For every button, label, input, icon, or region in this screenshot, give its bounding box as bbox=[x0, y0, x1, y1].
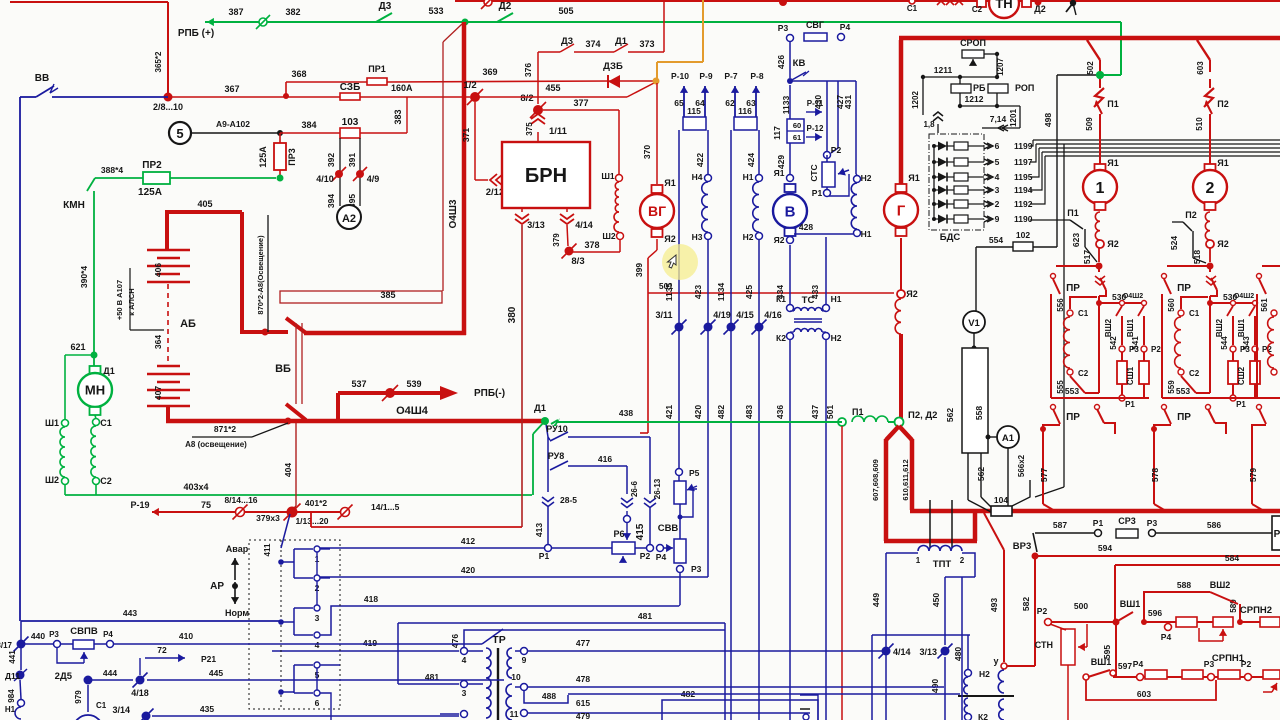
svg-text:ВШ1: ВШ1 bbox=[1091, 657, 1112, 667]
svg-text:С1: С1 bbox=[1189, 309, 1200, 318]
svg-text:379: 379 bbox=[552, 233, 561, 247]
svg-text:61: 61 bbox=[793, 133, 801, 142]
svg-text:Я1: Я1 bbox=[1217, 158, 1228, 168]
svg-text:870*2-А8(Освещение): 870*2-А8(Освещение) bbox=[256, 235, 265, 315]
svg-text:26-13: 26-13 bbox=[653, 478, 662, 499]
svg-text:160А: 160А bbox=[391, 83, 413, 93]
svg-text:440: 440 bbox=[31, 631, 45, 641]
svg-text:1190: 1190 bbox=[1014, 214, 1033, 224]
svg-text:П2, Д2: П2, Д2 bbox=[908, 410, 937, 421]
svg-text:Р2: Р2 bbox=[1151, 345, 1161, 354]
svg-text:369: 369 bbox=[482, 67, 497, 77]
svg-text:СТС: СТС bbox=[809, 164, 819, 181]
svg-text:8/14...16: 8/14...16 bbox=[224, 495, 257, 505]
svg-text:435: 435 bbox=[200, 704, 214, 714]
svg-text:116: 116 bbox=[738, 106, 752, 116]
svg-text:449: 449 bbox=[871, 593, 881, 607]
svg-text:410: 410 bbox=[179, 631, 193, 641]
svg-text:Г: Г bbox=[897, 202, 906, 219]
svg-text:РУ10: РУ10 bbox=[546, 424, 568, 434]
svg-text:Р5: Р5 bbox=[689, 468, 700, 478]
svg-text:ПР3: ПР3 bbox=[287, 148, 297, 165]
svg-text:607,608,609: 607,608,609 bbox=[871, 459, 880, 501]
svg-text:8/3: 8/3 bbox=[571, 256, 584, 267]
svg-text:555: 555 bbox=[1056, 380, 1065, 394]
svg-text:586: 586 bbox=[1207, 520, 1221, 530]
svg-text:370: 370 bbox=[642, 145, 652, 159]
svg-text:26-6: 26-6 bbox=[630, 480, 639, 497]
svg-text:542: 542 bbox=[1109, 336, 1118, 350]
svg-text:117: 117 bbox=[772, 126, 782, 140]
svg-text:603: 603 bbox=[1196, 61, 1205, 75]
svg-text:482: 482 bbox=[716, 405, 726, 419]
svg-text:Ш1: Ш1 bbox=[601, 171, 615, 181]
svg-text:П2: П2 bbox=[1185, 210, 1196, 220]
svg-text:Ш2: Ш2 bbox=[45, 475, 59, 485]
svg-text:1135: 1135 bbox=[664, 283, 674, 302]
svg-text:ВШ2: ВШ2 bbox=[1210, 580, 1231, 590]
svg-text:Я1: Я1 bbox=[908, 173, 919, 183]
svg-text:Р2: Р2 bbox=[640, 551, 651, 561]
svg-text:8/17: 8/17 bbox=[0, 641, 13, 650]
svg-text:554: 554 bbox=[989, 235, 1003, 245]
svg-text:Р4: Р4 bbox=[840, 22, 851, 32]
svg-text:1211: 1211 bbox=[934, 65, 953, 75]
svg-text:416: 416 bbox=[598, 454, 612, 464]
svg-text:560: 560 bbox=[1167, 298, 1176, 312]
svg-text:Р: Р bbox=[1274, 529, 1280, 540]
svg-text:579: 579 bbox=[1248, 468, 1258, 482]
svg-text:3/13: 3/13 bbox=[527, 220, 545, 230]
svg-text:438: 438 bbox=[619, 408, 633, 418]
svg-text:406: 406 bbox=[153, 263, 163, 277]
svg-text:О4Ш2: О4Ш2 bbox=[1234, 293, 1254, 300]
svg-text:Р21: Р21 bbox=[201, 654, 216, 664]
svg-text:578: 578 bbox=[1150, 468, 1160, 482]
svg-text:365*2: 365*2 bbox=[154, 51, 163, 72]
svg-text:Р1: Р1 bbox=[1236, 400, 1246, 409]
svg-text:Н2: Н2 bbox=[979, 669, 990, 679]
svg-text:556: 556 bbox=[1056, 298, 1065, 312]
svg-text:4: 4 bbox=[462, 655, 467, 665]
svg-text:4/9: 4/9 bbox=[367, 174, 380, 184]
svg-text:Р4: Р4 bbox=[1161, 632, 1172, 642]
svg-text:О4Ш4: О4Ш4 bbox=[396, 405, 429, 417]
svg-text:С1: С1 bbox=[96, 701, 107, 710]
svg-text:Р4: Р4 bbox=[656, 552, 667, 562]
svg-text:9: 9 bbox=[995, 214, 1000, 224]
svg-text:597: 597 bbox=[1118, 661, 1132, 671]
svg-text:621: 621 bbox=[70, 342, 85, 352]
svg-text:374: 374 bbox=[585, 39, 600, 49]
svg-text:С2: С2 bbox=[1078, 369, 1089, 378]
svg-text:537: 537 bbox=[351, 379, 366, 389]
svg-text:ПР: ПР bbox=[1177, 283, 1191, 294]
svg-text:543: 543 bbox=[1242, 336, 1251, 350]
svg-text:455: 455 bbox=[545, 83, 560, 93]
svg-text:4/14: 4/14 bbox=[893, 647, 911, 657]
svg-text:Ш2: Ш2 bbox=[602, 231, 616, 241]
svg-text:КМН: КМН bbox=[63, 200, 85, 211]
svg-text:424: 424 bbox=[746, 153, 756, 167]
svg-text:603: 603 bbox=[1137, 689, 1151, 699]
svg-text:ВШ1: ВШ1 bbox=[1126, 318, 1135, 337]
svg-text:ВГ: ВГ bbox=[648, 203, 666, 219]
svg-text:979: 979 bbox=[74, 690, 83, 704]
svg-text:443: 443 bbox=[123, 608, 137, 618]
svg-text:Д2: Д2 bbox=[499, 1, 512, 12]
svg-text:418: 418 bbox=[364, 594, 378, 604]
svg-text:533: 533 bbox=[428, 6, 443, 16]
svg-text:3: 3 bbox=[995, 185, 1000, 195]
svg-text:К2: К2 bbox=[978, 712, 988, 720]
svg-text:610,611,612: 610,611,612 bbox=[901, 459, 910, 500]
svg-text:412: 412 bbox=[461, 536, 475, 546]
svg-text:4/18: 4/18 bbox=[131, 688, 149, 698]
svg-text:Р-8: Р-8 bbox=[750, 71, 764, 81]
svg-text:4/16: 4/16 bbox=[764, 310, 782, 320]
svg-text:П1: П1 bbox=[1107, 99, 1118, 109]
svg-text:ВШ2: ВШ2 bbox=[1104, 318, 1113, 337]
svg-text:405: 405 bbox=[197, 199, 212, 209]
svg-text:481: 481 bbox=[638, 611, 652, 621]
svg-text:П2: П2 bbox=[1217, 99, 1228, 109]
svg-text:420: 420 bbox=[693, 405, 703, 419]
svg-text:Я2: Я2 bbox=[1217, 239, 1228, 249]
svg-text:125А: 125А bbox=[258, 146, 268, 168]
svg-text:КВ: КВ bbox=[793, 58, 806, 69]
svg-text:СШ2: СШ2 bbox=[1237, 366, 1246, 385]
svg-text:367: 367 bbox=[224, 84, 239, 94]
svg-text:Н3: Н3 bbox=[692, 232, 703, 242]
svg-text:379х3: 379х3 bbox=[256, 513, 280, 523]
svg-text:104: 104 bbox=[994, 495, 1008, 505]
svg-text:Р-19: Р-19 bbox=[130, 500, 149, 510]
svg-text:К1: К1 bbox=[776, 294, 786, 304]
svg-text:103: 103 bbox=[342, 117, 359, 128]
svg-text:539: 539 bbox=[406, 379, 421, 389]
svg-text:6: 6 bbox=[995, 141, 1000, 151]
svg-text:ДЗБ: ДЗБ bbox=[603, 61, 623, 72]
svg-text:1207: 1207 bbox=[996, 58, 1005, 76]
svg-text:С2: С2 bbox=[1189, 369, 1200, 378]
svg-text:4/10: 4/10 bbox=[316, 174, 334, 184]
svg-text:553: 553 bbox=[1176, 386, 1190, 396]
svg-text:561: 561 bbox=[1260, 298, 1269, 312]
svg-text:7,14: 7,14 bbox=[990, 114, 1007, 124]
svg-text:431: 431 bbox=[843, 95, 853, 109]
svg-text:553: 553 bbox=[1065, 386, 1079, 396]
svg-text:БРН: БРН bbox=[525, 165, 567, 187]
svg-text:РПБ(-): РПБ(-) bbox=[474, 388, 505, 399]
svg-text:ПР: ПР bbox=[1177, 412, 1191, 423]
svg-text:Р3: Р3 bbox=[49, 630, 59, 639]
svg-text:541: 541 bbox=[1131, 336, 1140, 350]
svg-text:399: 399 bbox=[634, 263, 644, 277]
svg-text:Я2: Я2 bbox=[1107, 239, 1118, 249]
svg-text:102: 102 bbox=[1016, 230, 1030, 240]
svg-text:СВПВ: СВПВ bbox=[70, 626, 98, 637]
svg-text:Р6: Р6 bbox=[613, 529, 624, 539]
svg-text:Р1: Р1 bbox=[812, 188, 823, 198]
svg-text:376: 376 bbox=[523, 63, 533, 77]
svg-text:С2: С2 bbox=[972, 5, 983, 14]
svg-text:Р2: Р2 bbox=[1037, 606, 1048, 616]
svg-text:ВШ2: ВШ2 bbox=[1215, 318, 1224, 337]
svg-text:СВГ: СВГ bbox=[806, 20, 824, 30]
svg-text:А2: А2 bbox=[342, 213, 356, 225]
svg-text:С1: С1 bbox=[1078, 309, 1089, 318]
svg-text:АР: АР bbox=[210, 581, 224, 592]
svg-text:422: 422 bbox=[695, 153, 705, 167]
svg-text:476: 476 bbox=[450, 634, 460, 648]
svg-text:11: 11 bbox=[510, 709, 519, 719]
svg-text:СШ1: СШ1 bbox=[1126, 366, 1135, 385]
svg-text:Р2: Р2 bbox=[831, 145, 842, 155]
svg-text:С1: С1 bbox=[100, 418, 112, 428]
svg-text:Р4: Р4 bbox=[103, 630, 113, 639]
svg-text:1: 1 bbox=[916, 556, 921, 565]
svg-text:426: 426 bbox=[776, 55, 786, 69]
svg-text:377: 377 bbox=[573, 98, 588, 108]
svg-text:ПР: ПР bbox=[1066, 412, 1080, 423]
svg-text:С2: С2 bbox=[100, 476, 112, 486]
svg-text:368: 368 bbox=[291, 69, 306, 79]
svg-text:391: 391 bbox=[347, 153, 357, 167]
svg-text:382: 382 bbox=[285, 7, 300, 17]
svg-text:Н2: Н2 bbox=[743, 232, 754, 242]
svg-text:378: 378 bbox=[584, 240, 599, 250]
svg-text:72: 72 bbox=[157, 645, 167, 655]
svg-text:Н2: Н2 bbox=[861, 173, 872, 183]
svg-text:Д2: Д2 bbox=[1034, 4, 1045, 14]
svg-text:Д1: Д1 bbox=[615, 36, 628, 47]
svg-text:3: 3 bbox=[462, 688, 467, 698]
svg-text:1201: 1201 bbox=[1009, 109, 1018, 127]
svg-text:450: 450 bbox=[931, 593, 941, 607]
svg-text:Р1: Р1 bbox=[1125, 400, 1135, 409]
svg-text:75: 75 bbox=[201, 500, 211, 510]
svg-text:371: 371 bbox=[461, 128, 471, 142]
svg-text:615: 615 bbox=[576, 698, 590, 708]
svg-text:Р3: Р3 bbox=[1147, 518, 1158, 528]
svg-text:509: 509 bbox=[1085, 117, 1094, 131]
svg-text:441: 441 bbox=[8, 650, 17, 664]
svg-text:444: 444 bbox=[103, 668, 117, 678]
svg-text:871*2: 871*2 bbox=[214, 424, 236, 434]
svg-text:500: 500 bbox=[1074, 601, 1088, 611]
svg-text:375: 375 bbox=[525, 122, 534, 136]
svg-text:1192: 1192 bbox=[1014, 199, 1033, 209]
svg-text:60: 60 bbox=[793, 121, 801, 130]
svg-text:РПБ (+): РПБ (+) bbox=[178, 28, 214, 39]
svg-text:404: 404 bbox=[283, 463, 293, 477]
svg-text:Р-11: Р-11 bbox=[807, 99, 824, 108]
svg-text:407: 407 bbox=[153, 386, 163, 400]
svg-text:1197: 1197 bbox=[1014, 157, 1033, 167]
svg-text:4: 4 bbox=[315, 640, 320, 650]
svg-text:373: 373 bbox=[639, 39, 654, 49]
svg-text:596: 596 bbox=[1148, 608, 1162, 618]
svg-text:Р1: Р1 bbox=[1093, 518, 1104, 528]
svg-text:Я2: Я2 bbox=[774, 235, 785, 245]
svg-text:479: 479 bbox=[576, 711, 590, 720]
svg-text:1194: 1194 bbox=[1014, 185, 1033, 195]
svg-text:+50 В А107: +50 В А107 bbox=[115, 280, 124, 320]
svg-text:566х2: 566х2 bbox=[1017, 454, 1026, 477]
svg-text:СЗБ: СЗБ bbox=[340, 82, 361, 93]
svg-text:Н1: Н1 bbox=[5, 705, 16, 714]
svg-text:РОП: РОП bbox=[1015, 83, 1034, 93]
svg-text:28-5: 28-5 bbox=[560, 495, 577, 505]
svg-text:8/2: 8/2 bbox=[520, 93, 533, 104]
svg-text:5: 5 bbox=[176, 126, 183, 141]
svg-text:518: 518 bbox=[1192, 250, 1202, 264]
svg-text:Я1: Я1 bbox=[774, 168, 785, 178]
svg-text:СР3: СР3 bbox=[1118, 516, 1136, 526]
svg-text:14/1...5: 14/1...5 bbox=[371, 502, 400, 512]
svg-text:428: 428 bbox=[799, 222, 813, 232]
svg-text:2Д5: 2Д5 bbox=[55, 671, 73, 682]
svg-text:Р2: Р2 bbox=[1241, 659, 1252, 669]
svg-text:558: 558 bbox=[974, 406, 984, 420]
svg-text:2: 2 bbox=[995, 199, 1000, 209]
svg-text:А8 (освещение): А8 (освещение) bbox=[185, 440, 247, 449]
svg-text:1195: 1195 bbox=[1014, 172, 1033, 182]
svg-text:ВР3: ВР3 bbox=[1013, 541, 1031, 552]
svg-text:5: 5 bbox=[995, 157, 1000, 167]
svg-text:392: 392 bbox=[326, 153, 336, 167]
svg-text:АБ: АБ bbox=[180, 318, 196, 330]
svg-text:Д1: Д1 bbox=[534, 403, 547, 414]
svg-text:ПР2: ПР2 bbox=[142, 160, 162, 171]
svg-text:4: 4 bbox=[995, 172, 1000, 182]
svg-text:65: 65 bbox=[674, 98, 684, 108]
svg-text:Р-9: Р-9 bbox=[699, 71, 713, 81]
svg-text:4/14: 4/14 bbox=[575, 220, 593, 230]
svg-text:562: 562 bbox=[945, 408, 955, 422]
svg-text:517: 517 bbox=[1082, 250, 1092, 264]
svg-text:Ш1: Ш1 bbox=[45, 418, 59, 428]
svg-text:Р-12: Р-12 bbox=[807, 124, 824, 133]
svg-text:СРПН2: СРПН2 bbox=[1240, 605, 1272, 616]
svg-text:587: 587 bbox=[1053, 520, 1067, 530]
svg-text:1199: 1199 bbox=[1014, 141, 1033, 151]
svg-text:488: 488 bbox=[542, 691, 556, 701]
svg-text:623: 623 bbox=[1071, 233, 1081, 247]
svg-text:498: 498 bbox=[1043, 113, 1053, 127]
svg-text:490: 490 bbox=[930, 679, 940, 693]
svg-text:Авар: Авар bbox=[226, 544, 249, 554]
svg-text:Р3: Р3 bbox=[778, 23, 789, 33]
svg-text:436: 436 bbox=[775, 405, 785, 419]
svg-text:437: 437 bbox=[810, 405, 820, 419]
svg-text:Р-7: Р-7 bbox=[724, 71, 738, 81]
svg-text:А1: А1 bbox=[1002, 433, 1015, 444]
svg-text:у: у bbox=[993, 656, 998, 666]
svg-text:445: 445 bbox=[209, 668, 223, 678]
svg-text:4/15: 4/15 bbox=[736, 310, 754, 320]
svg-text:544: 544 bbox=[1220, 336, 1229, 350]
svg-text:1,8: 1,8 bbox=[923, 120, 935, 129]
svg-text:БДС: БДС bbox=[940, 232, 961, 243]
svg-text:СВВ: СВВ bbox=[658, 523, 679, 534]
svg-text:V1: V1 bbox=[968, 318, 980, 329]
svg-text:Н1: Н1 bbox=[831, 294, 842, 304]
svg-text:3/11: 3/11 bbox=[655, 310, 672, 320]
svg-text:10: 10 bbox=[511, 672, 521, 682]
svg-text:984: 984 bbox=[7, 689, 16, 703]
svg-text:483: 483 bbox=[744, 405, 754, 419]
svg-text:425: 425 bbox=[744, 285, 754, 299]
svg-text:415: 415 bbox=[635, 523, 646, 540]
svg-text:Д3: Д3 bbox=[379, 1, 392, 12]
svg-text:О4Ш2: О4Ш2 bbox=[1123, 293, 1143, 300]
svg-text:П1: П1 bbox=[1067, 208, 1078, 218]
svg-text:Н4: Н4 bbox=[692, 172, 703, 182]
svg-text:115: 115 bbox=[687, 106, 701, 116]
svg-text:В: В bbox=[785, 203, 796, 220]
svg-text:594: 594 bbox=[1098, 543, 1112, 553]
svg-text:Н2: Н2 bbox=[831, 333, 842, 343]
svg-text:9: 9 bbox=[522, 655, 527, 665]
svg-text:Д3: Д3 bbox=[561, 36, 573, 47]
svg-text:493: 493 bbox=[989, 598, 999, 612]
svg-text:Я1: Я1 bbox=[1107, 158, 1118, 168]
svg-text:РУ8: РУ8 bbox=[548, 451, 565, 461]
svg-text:ПР: ПР bbox=[1066, 283, 1080, 294]
svg-text:Я1: Я1 bbox=[664, 178, 675, 188]
svg-text:Я2: Я2 bbox=[906, 289, 917, 299]
svg-text:577: 577 bbox=[1039, 468, 1049, 482]
svg-text:3/14: 3/14 bbox=[112, 705, 130, 715]
svg-text:1/2: 1/2 bbox=[463, 80, 476, 91]
svg-text:Р3: Р3 bbox=[691, 564, 702, 574]
svg-text:388*4: 388*4 bbox=[101, 165, 123, 175]
svg-text:1/11: 1/11 bbox=[549, 126, 568, 137]
svg-text:1212: 1212 bbox=[965, 94, 984, 104]
svg-text:Д11: Д11 bbox=[5, 671, 20, 681]
svg-text:429: 429 bbox=[776, 155, 786, 169]
svg-text:6: 6 bbox=[315, 698, 320, 708]
svg-text:394: 394 bbox=[326, 194, 336, 208]
svg-text:3/13: 3/13 bbox=[919, 647, 937, 657]
svg-text:СРОП: СРОП bbox=[960, 38, 986, 48]
svg-text:Я2: Я2 bbox=[664, 234, 675, 244]
svg-text:Р4: Р4 bbox=[1133, 659, 1144, 669]
svg-text:ТН: ТН bbox=[995, 0, 1012, 11]
svg-text:588: 588 bbox=[1177, 580, 1191, 590]
svg-text:385: 385 bbox=[380, 290, 395, 300]
svg-text:1/13...20: 1/13...20 bbox=[295, 516, 328, 526]
svg-text:2/8...10: 2/8...10 bbox=[153, 102, 183, 112]
svg-text:ВШ1: ВШ1 bbox=[1237, 318, 1246, 337]
svg-text:О4Ш3: О4Ш3 bbox=[448, 199, 459, 228]
svg-text:383: 383 bbox=[393, 109, 403, 124]
svg-text:Н1: Н1 bbox=[861, 229, 872, 239]
svg-text:62: 62 bbox=[725, 98, 735, 108]
svg-text:478: 478 bbox=[576, 674, 590, 684]
svg-text:524: 524 bbox=[1169, 236, 1179, 250]
svg-text:К2: К2 bbox=[776, 333, 786, 343]
svg-text:Р-10: Р-10 bbox=[671, 71, 689, 81]
svg-text:С1: С1 bbox=[907, 4, 918, 13]
svg-text:390*4: 390*4 bbox=[79, 266, 89, 288]
svg-text:к АЛСН: к АЛСН bbox=[127, 288, 136, 315]
svg-text:Д1: Д1 bbox=[103, 366, 114, 376]
svg-text:505: 505 bbox=[558, 6, 573, 16]
svg-text:423: 423 bbox=[693, 285, 703, 299]
